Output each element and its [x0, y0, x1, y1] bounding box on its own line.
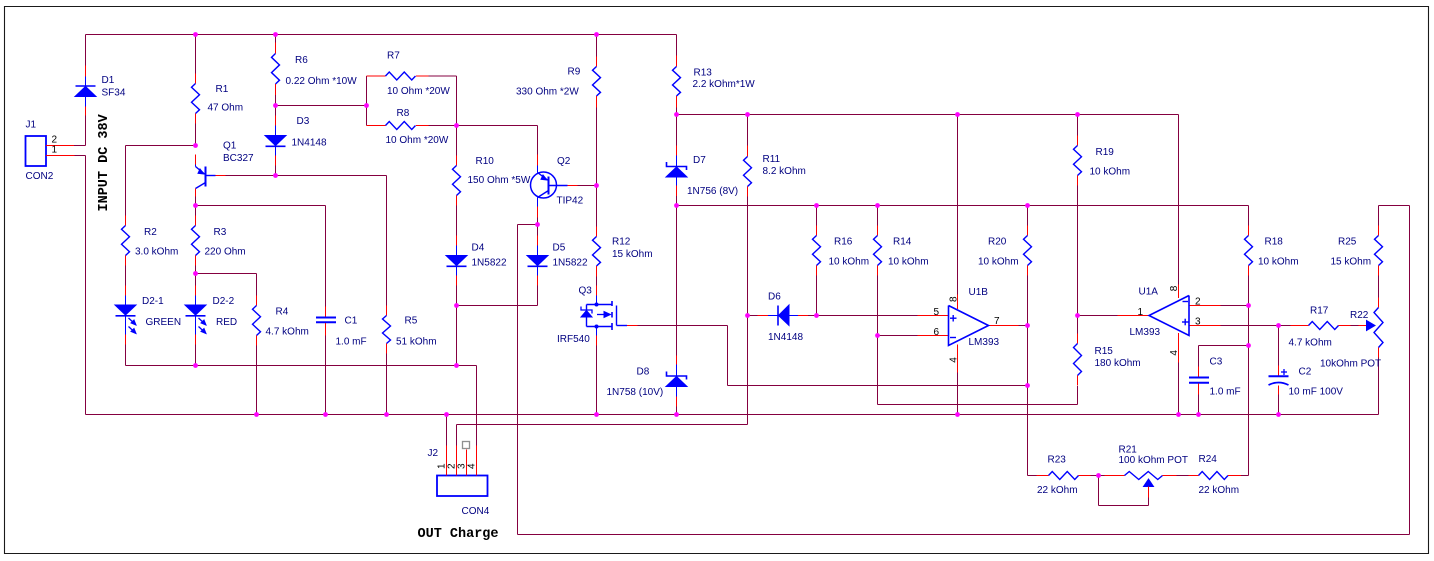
- resistor R6: [272, 43, 358, 96]
- wire D1 cathode to rail / anode to J1 pin2: [74, 116, 86, 146]
- potentiometer R21: [1105, 445, 1188, 498]
- svg-text:R23: R23: [1048, 455, 1067, 466]
- svg-text:D3: D3: [297, 116, 310, 127]
- resistor R5: [383, 306, 437, 354]
- svg-text:22 kOhm: 22 kOhm: [1199, 485, 1240, 496]
- wire R25 top bracket: [1379, 205, 1410, 207]
- svg-text:R21: R21: [1119, 445, 1138, 456]
- wire R25/R22 column: [1378, 206, 1380, 415]
- resistor R12: [593, 227, 653, 277]
- svg-text:J1: J1: [26, 120, 37, 131]
- diode D5: [527, 236, 588, 286]
- svg-text:IRF540: IRF540: [557, 334, 590, 345]
- svg-text:15 kOhm: 15 kOhm: [1331, 257, 1372, 268]
- resistor R11: [744, 146, 806, 197]
- svg-text:Q3: Q3: [579, 286, 593, 297]
- resistor R10: [453, 156, 531, 206]
- wire R17 left lead: [1279, 325, 1291, 327]
- wire R11/D6 node to J2 pin2 column: [747, 316, 749, 425]
- svg-text:J2: J2: [428, 448, 439, 459]
- wire output loop left column: [517, 225, 519, 535]
- svg-text:2: 2: [1195, 297, 1201, 308]
- svg-text:R13: R13: [694, 68, 713, 79]
- svg-text:INPUT DC 38V: INPUT DC 38V: [97, 113, 112, 211]
- svg-text:1N4148: 1N4148: [292, 138, 327, 149]
- capacitor C3: [1189, 357, 1241, 398]
- wire C3 top link: [1199, 345, 1249, 347]
- wire Q2 collector down to D5: [537, 218, 539, 306]
- svg-text:10 Ohm *20W: 10 Ohm *20W: [387, 86, 450, 97]
- resistor R7: [367, 51, 451, 98]
- wire D4/D5 bottom link: [457, 305, 538, 307]
- svg-text:0.22 Ohm *10W: 0.22 Ohm *10W: [286, 76, 358, 87]
- svg-text:10 kOhm: 10 kOhm: [978, 257, 1019, 268]
- wire R1 column: [195, 35, 197, 146]
- diode D3: [265, 116, 327, 166]
- resistor R23: [1037, 455, 1091, 497]
- wire C2 column: [1278, 326, 1280, 415]
- svg-text:U1A: U1A: [1139, 287, 1159, 298]
- wire R5 column: [386, 176, 388, 415]
- svg-text:220 Ohm: 220 Ohm: [205, 247, 246, 258]
- wire D2-2 column: [195, 274, 197, 366]
- wire Q3 gate run: [638, 326, 1028, 386]
- wire D4 bottom: [456, 286, 458, 366]
- svg-text:4.7 kOhm: 4.7 kOhm: [266, 327, 309, 338]
- svg-text:R20: R20: [988, 237, 1007, 248]
- svg-text:4: 4: [467, 463, 478, 469]
- svg-text:Q2: Q2: [557, 156, 571, 167]
- LED D2-1: [115, 286, 181, 345]
- svg-text:R6: R6: [295, 55, 308, 66]
- connector J1: [26, 120, 75, 183]
- LED D2-2: [185, 286, 237, 345]
- svg-text:10 mF 100V: 10 mF 100V: [1289, 387, 1344, 398]
- svg-text:R25: R25: [1338, 237, 1357, 248]
- svg-text:R18: R18: [1265, 237, 1284, 248]
- wire R13 column: [676, 35, 678, 115]
- resistor R19: [1074, 136, 1131, 186]
- svg-text:OUT Charge: OUT Charge: [418, 527, 499, 542]
- svg-text:R11: R11: [763, 154, 781, 165]
- wire R21/R24 link: [1177, 475, 1189, 477]
- wire R8 right lead: [429, 125, 457, 127]
- wire node Q1C to C1: [196, 205, 326, 207]
- wire R2/D2-1 column: [125, 146, 127, 366]
- svg-text:R10: R10: [476, 156, 495, 167]
- resistor R17: [1289, 306, 1351, 349]
- svg-text:4: 4: [1169, 350, 1180, 356]
- resistor R14: [874, 226, 929, 276]
- svg-text:3.0 kOhm: 3.0 kOhm: [135, 247, 178, 258]
- svg-text:10 Ohm *20W: 10 Ohm *20W: [386, 135, 449, 146]
- wire R14/R15 bottom link: [878, 336, 1078, 405]
- wire output right column: [1409, 206, 1411, 535]
- svg-text:D2-2: D2-2: [213, 296, 235, 307]
- resistor R13: [673, 56, 756, 108]
- resistor R18: [1245, 226, 1299, 276]
- svg-text:D7: D7: [693, 155, 706, 166]
- svg-text:R7: R7: [387, 51, 400, 62]
- svg-text:R15: R15: [1095, 346, 1114, 357]
- resistor R16: [813, 226, 870, 276]
- wire R18 column: [1248, 206, 1250, 476]
- svg-text:D1: D1: [102, 75, 115, 86]
- svg-text:RED: RED: [216, 317, 237, 328]
- zener D7: [666, 146, 738, 198]
- wire Q2 base to R9 column: [578, 185, 597, 187]
- wire Q1 collector to node: [195, 197, 197, 206]
- wire Q2 emitter branch to out loop: [518, 224, 538, 226]
- svg-text:51 kOhm: 51 kOhm: [396, 337, 437, 348]
- svg-text:C2: C2: [1299, 367, 1312, 378]
- svg-text:1N5822: 1N5822: [553, 258, 588, 269]
- svg-text:8: 8: [1169, 285, 1180, 291]
- wire R20 column: [1027, 206, 1029, 476]
- wire R9 column: [596, 35, 598, 186]
- svg-text:4.7 kOhm: 4.7 kOhm: [1289, 338, 1332, 349]
- svg-text:U1B: U1B: [969, 287, 989, 298]
- wire bracket to R10: [456, 126, 458, 236]
- svg-text:D2-1: D2-1: [142, 296, 164, 307]
- wire R11 column: [747, 115, 749, 316]
- svg-text:47 Ohm: 47 Ohm: [208, 103, 244, 114]
- svg-text:15 kOhm: 15 kOhm: [612, 249, 653, 260]
- resistor R8: [367, 108, 449, 146]
- svg-text:1N756 (8V): 1N756 (8V): [687, 186, 738, 197]
- svg-text:R2: R2: [144, 227, 157, 238]
- svg-text:R3: R3: [214, 227, 227, 238]
- svg-text:R16: R16: [834, 237, 853, 248]
- svg-text:R12: R12: [612, 237, 631, 248]
- svg-text:4: 4: [949, 357, 960, 363]
- svg-text:100 kOhm POT: 100 kOhm POT: [1119, 455, 1188, 466]
- svg-text:C1: C1: [345, 316, 358, 327]
- wire J2 pin2 drop: [456, 425, 458, 446]
- svg-text:22 kOhm: 22 kOhm: [1037, 485, 1078, 496]
- svg-text:1.0 mF: 1.0 mF: [336, 337, 367, 348]
- wire mid rail: [677, 205, 1249, 207]
- svg-text:R8: R8: [397, 108, 410, 119]
- diode D4: [446, 236, 507, 286]
- wire output bottom rail: [518, 534, 1410, 536]
- wire J2 pin4 drop: [476, 366, 478, 446]
- wire U1A pin4 to ground: [1178, 363, 1180, 415]
- transistor Q3: [557, 286, 638, 346]
- svg-text:SF34: SF34: [102, 88, 126, 99]
- svg-text:3: 3: [1195, 317, 1201, 328]
- svg-text:R5: R5: [405, 316, 418, 327]
- svg-text:CON4: CON4: [462, 506, 490, 517]
- resistor R1: [192, 74, 244, 124]
- wire R16 column: [816, 206, 818, 316]
- svg-text:180 kOhm: 180 kOhm: [1095, 358, 1141, 369]
- svg-text:1.0 mF: 1.0 mF: [1210, 387, 1241, 398]
- svg-text:1: 1: [52, 145, 58, 156]
- wire left input column (D1 branch): [85, 35, 87, 66]
- svg-text:Q1: Q1: [223, 141, 237, 152]
- svg-text:LM393: LM393: [1130, 327, 1161, 338]
- wire R7 right lead: [429, 75, 457, 77]
- svg-text:1: 1: [1137, 307, 1143, 318]
- wire Q3 source to ground: [596, 346, 598, 415]
- svg-text:150 Ohm *5W: 150 Ohm *5W: [468, 175, 531, 186]
- svg-text:2.2 kOhm*1W: 2.2 kOhm*1W: [693, 79, 756, 90]
- wire R3 column: [195, 206, 197, 274]
- svg-text:GREEN: GREEN: [146, 317, 182, 328]
- zener D8: [607, 356, 688, 407]
- wire Q1 base line: [226, 175, 387, 177]
- wire D6 to R16/U1B pin5: [808, 315, 918, 317]
- potentiometer R22: [1320, 298, 1383, 370]
- wire R6 to R7R8 bracket: [276, 105, 367, 107]
- svg-text:CON2: CON2: [26, 171, 54, 182]
- wire R19 column: [1077, 115, 1079, 316]
- svg-text:C3: C3: [1210, 357, 1223, 368]
- svg-text:10 kOhm: 10 kOhm: [888, 257, 929, 268]
- wire D7 column: [676, 115, 678, 206]
- wire U1B pin7 to R20 column: [1019, 325, 1028, 327]
- svg-text:5: 5: [934, 307, 940, 318]
- diode D1: [75, 66, 126, 116]
- wire R2 top link: [126, 145, 196, 147]
- wire J1 pin1 to ground rail: [75, 156, 86, 415]
- svg-text:R17: R17: [1310, 306, 1329, 317]
- wire R3/R4 link: [196, 273, 257, 275]
- svg-text:330 Ohm *2W: 330 Ohm *2W: [516, 87, 579, 98]
- resistor R15: [1074, 334, 1141, 386]
- wire U1A pin8 column: [1178, 115, 1180, 285]
- capacitor C1: [316, 307, 367, 348]
- wire R24 right lead: [1241, 475, 1249, 477]
- wire ground rail: [86, 414, 1379, 416]
- svg-text:R4: R4: [276, 307, 289, 318]
- wire J2 pin2 row: [457, 424, 748, 426]
- wire R14 column: [877, 206, 879, 336]
- wire C1 column: [325, 206, 327, 415]
- resistor R9: [516, 57, 601, 108]
- svg-text:R19: R19: [1096, 147, 1115, 158]
- wire R21 wiper loop: [1099, 476, 1149, 506]
- wire LED cathode rail: [126, 365, 477, 367]
- svg-text:LM393: LM393: [969, 337, 1000, 348]
- wire R23/R21 node: [1091, 475, 1105, 477]
- svg-text:R9: R9: [568, 67, 581, 78]
- wire +38V top rail: [86, 34, 677, 36]
- wire D7 anode to D8: [676, 206, 678, 415]
- capacitor C2: [1269, 366, 1344, 398]
- wire R17 to R22 wiper: [1351, 325, 1359, 327]
- resistor R2: [122, 216, 179, 266]
- wire R7R8 right bracket: [456, 76, 458, 126]
- svg-text:TIP42: TIP42: [557, 196, 584, 207]
- svg-text:D8: D8: [637, 367, 650, 378]
- svg-text:BC327: BC327: [223, 153, 254, 164]
- wire R23 left column: [1028, 475, 1037, 477]
- wire D6 left lead: [748, 315, 758, 317]
- svg-text:8: 8: [949, 296, 960, 302]
- wire U1A pin3 row: [1221, 325, 1279, 327]
- svg-text:R22: R22: [1350, 310, 1369, 321]
- svg-text:10kOhm POT: 10kOhm POT: [1320, 359, 1381, 370]
- svg-text:1N5822: 1N5822: [472, 258, 507, 269]
- svg-text:R1: R1: [216, 84, 229, 95]
- svg-text:D4: D4: [472, 243, 485, 254]
- transistor Q2: [531, 155, 584, 218]
- svg-text:R14: R14: [893, 237, 912, 248]
- wire R4 column: [256, 274, 258, 415]
- svg-text:10 kOhm: 10 kOhm: [1258, 257, 1299, 268]
- wire U1B pin6 row: [878, 335, 918, 337]
- diode D6: [758, 292, 809, 344]
- op-amp U1B: [918, 287, 1019, 373]
- wire R7R8 left bracket: [366, 76, 368, 126]
- svg-text:D6: D6: [768, 292, 781, 303]
- op-amp U1A: [1118, 285, 1221, 363]
- svg-text:6: 6: [934, 327, 940, 338]
- net label OUT Charge: [418, 527, 499, 542]
- net label INPUT DC 38V: [97, 113, 112, 211]
- resistor R20: [978, 226, 1032, 276]
- resistor R4: [253, 296, 309, 346]
- wire U1A pin1 to R15: [1078, 316, 1118, 334]
- wire bracket to Q2 emitter: [457, 126, 538, 155]
- resistor R3: [192, 216, 246, 266]
- svg-text:8.2 kOhm: 8.2 kOhm: [763, 166, 806, 177]
- wire R12 column: [596, 186, 598, 286]
- wire C3 column: [1198, 346, 1200, 415]
- connector J2: [428, 446, 490, 518]
- wire J2 pin1 drop: [446, 415, 448, 446]
- wire U1A pin2 to R18: [1221, 305, 1249, 307]
- svg-text:D5: D5: [553, 243, 566, 254]
- wire D3 column: [275, 106, 277, 176]
- svg-text:1N4148: 1N4148: [768, 332, 803, 343]
- svg-text:1N758 (10V): 1N758 (10V): [607, 387, 664, 398]
- wire U1B pin4 column: [957, 373, 959, 415]
- wire R6 column: [275, 35, 277, 106]
- transistor Q1: [196, 141, 255, 197]
- wire U1B pin8 column: [957, 115, 959, 295]
- wire 8V rail: [677, 114, 1179, 116]
- svg-text:R24: R24: [1199, 454, 1218, 465]
- svg-text:10 kOhm: 10 kOhm: [1090, 167, 1131, 178]
- svg-text:10 kOhm: 10 kOhm: [829, 257, 870, 268]
- svg-text:7: 7: [994, 316, 1000, 327]
- resistor R24: [1189, 454, 1242, 496]
- resistor R25: [1331, 226, 1383, 276]
- no-connect marker J2 pin3: [463, 442, 470, 449]
